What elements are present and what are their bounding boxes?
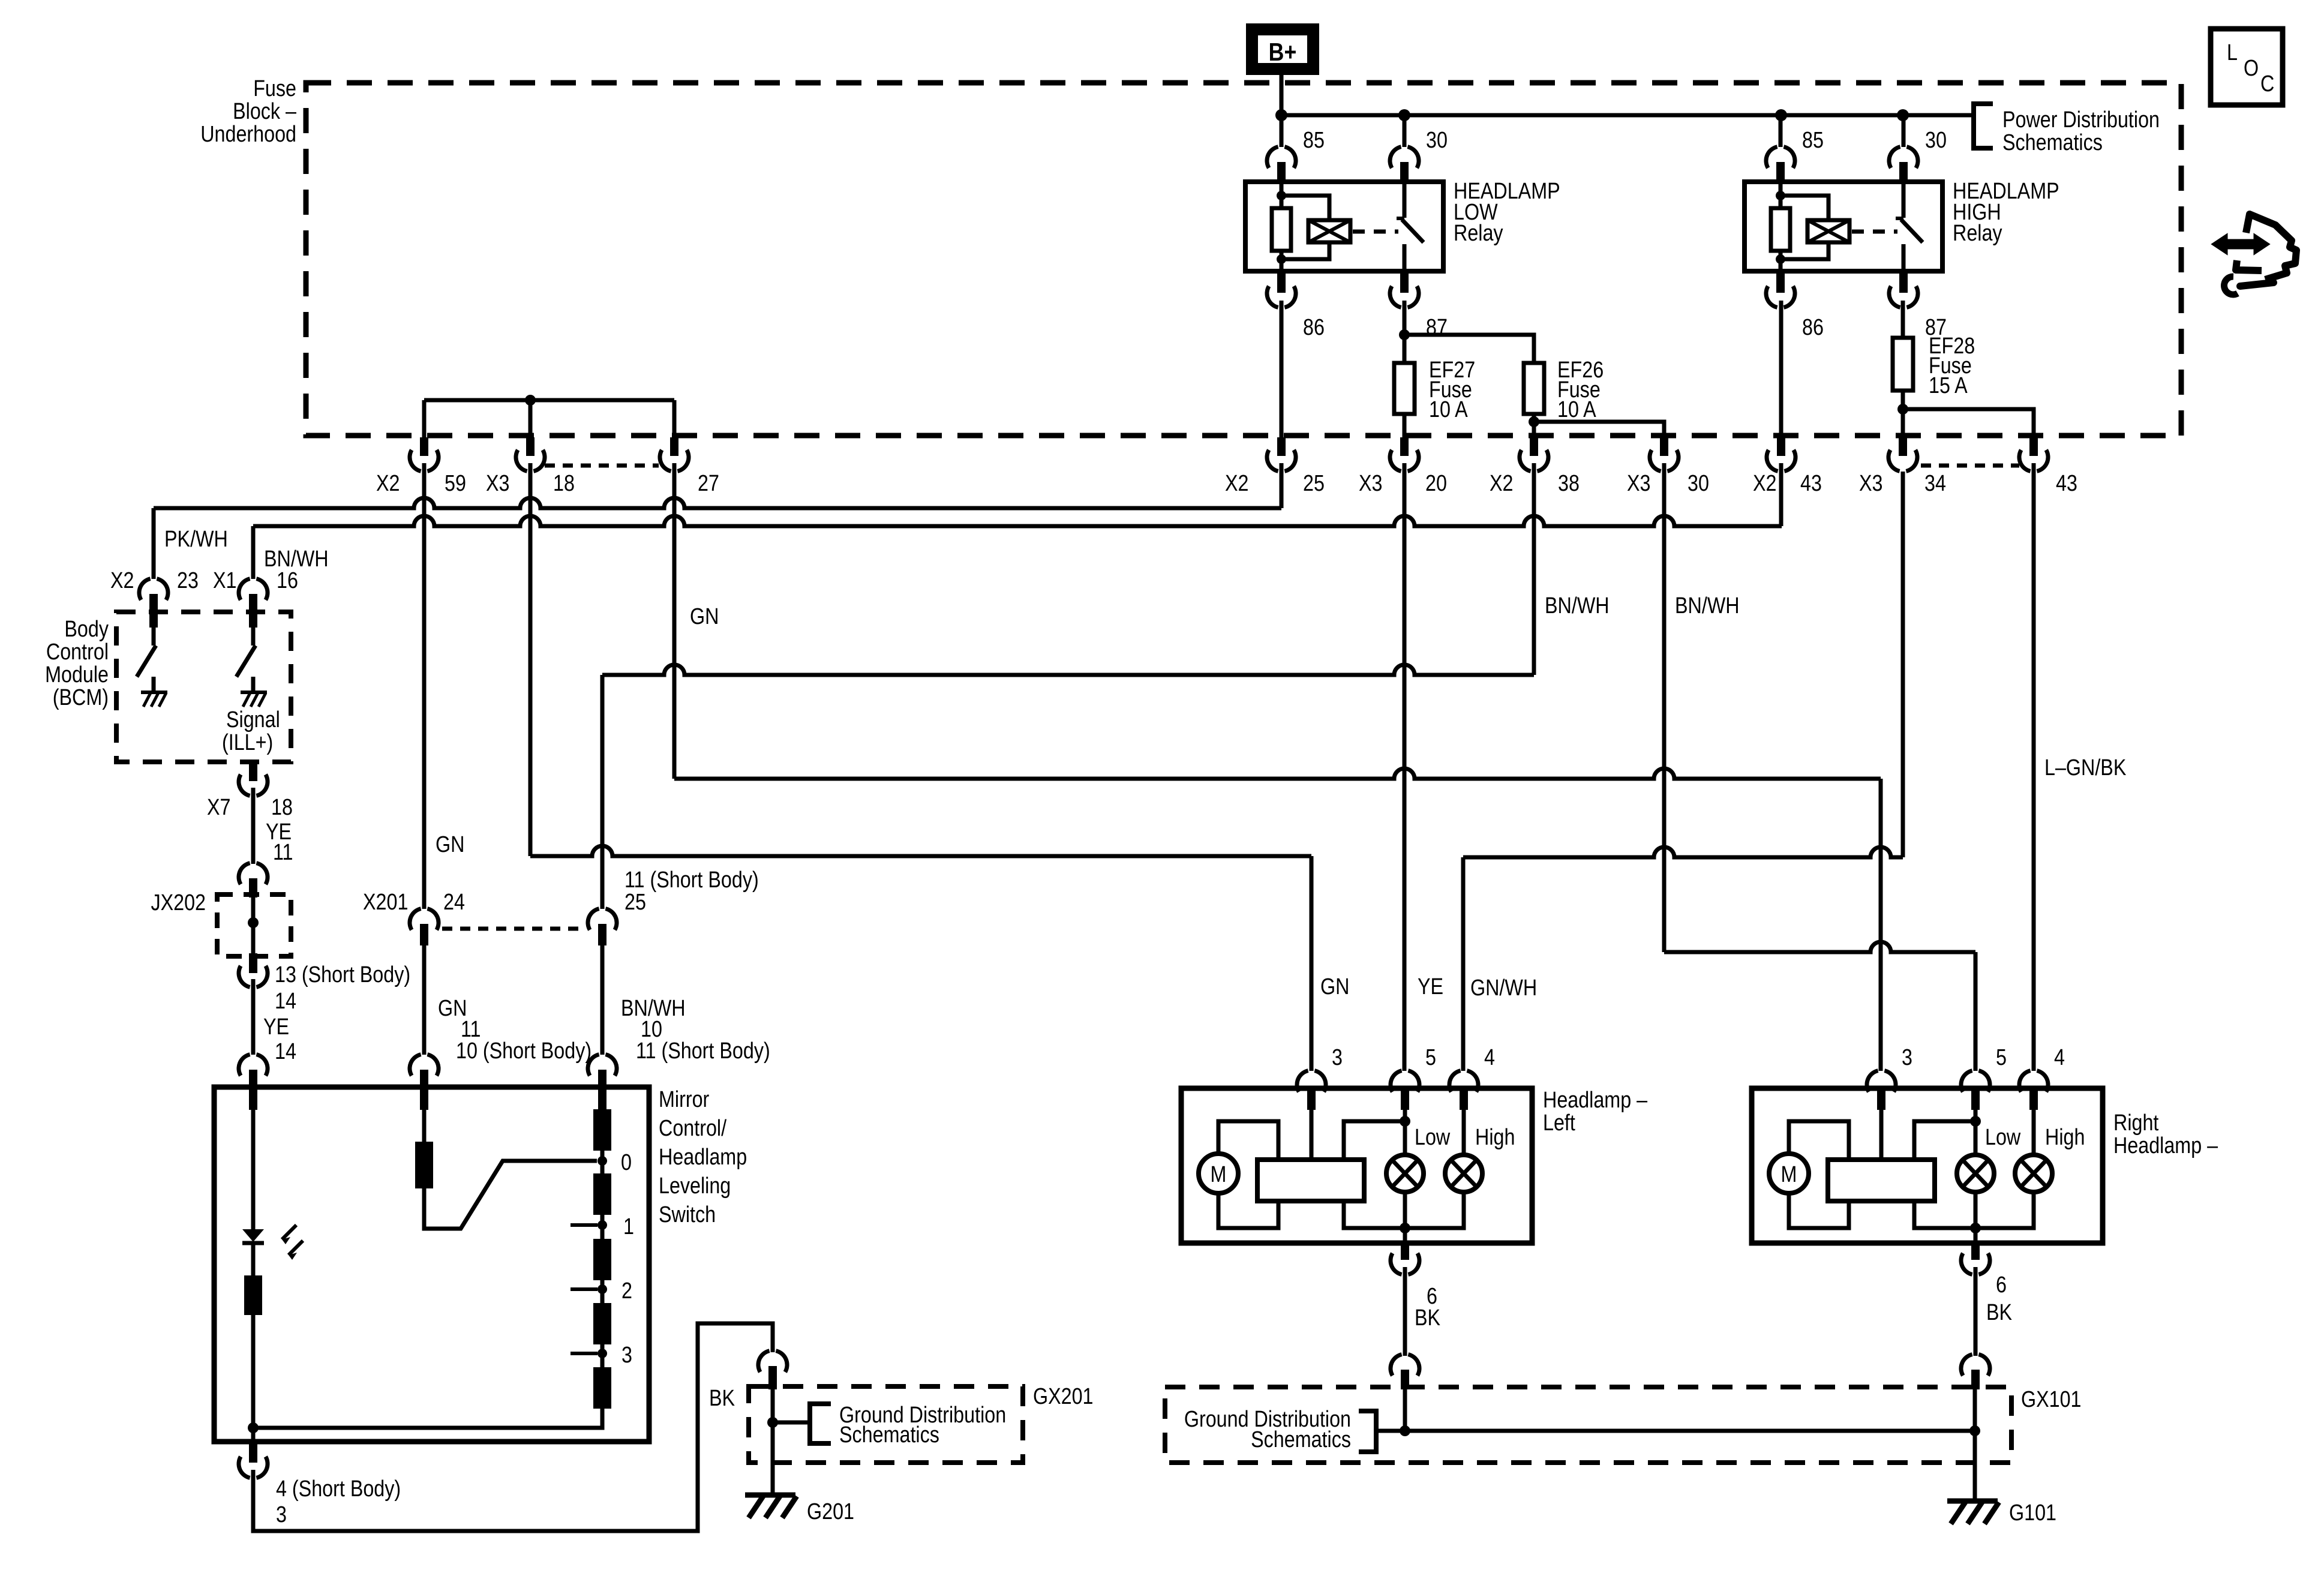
fuse EF26 [1524,363,1544,414]
wire relay-low 87 down [1403,301,1407,363]
connector arc X201-25 [588,909,599,930]
svg-text:10 A: 10 A [1429,397,1468,422]
pin 30 [1899,162,1908,182]
wire relay-high 87 down [1901,301,1905,338]
inline connector pin 27 [670,437,678,456]
svg-text:X3: X3 [1627,471,1650,496]
svg-text:15 A: 15 A [1929,373,1968,398]
svg-text:10 (Short Body): 10 (Short Body) [456,1038,591,1064]
connector arc pin 5 [1391,1071,1402,1092]
GX101 left wire [1403,1389,1407,1431]
connector cup below JX202 [239,966,250,987]
BCM internal switch x422 [251,628,256,646]
pin BK into GX201 [768,1366,777,1389]
connector cup below switch [239,1457,250,1478]
svg-text:59: 59 [445,471,466,496]
mirror control box [214,1087,649,1442]
pin 85 [1277,162,1286,182]
svg-text:34: 34 [1924,471,1946,496]
LED arrows [282,1225,296,1239]
svg-text:3: 3 [276,1502,287,1527]
coil side wire [1280,182,1284,271]
headlamp box [1752,1088,2103,1243]
junction dot below EF28 [1897,404,1908,415]
ground G201 [745,1493,795,1498]
power distribution bracket [1974,104,1993,148]
junction dot pin5 branch [1970,1116,1981,1127]
low beam lamp [1386,1155,1424,1192]
svg-text:X3: X3 [1359,471,1382,496]
pin3 wire to actuator [1879,1088,1884,1160]
svg-text:85: 85 [1303,128,1325,153]
coil side wire [1779,182,1783,271]
junction dot coil bottom [1776,254,1785,264]
junction dot coil top [1776,191,1785,200]
svg-text:Schematics: Schematics [839,1422,939,1448]
wire BN/WH line [253,516,1782,526]
wire left headlamp pin3 drop [1310,856,1314,1071]
svg-text:Control/: Control/ [659,1116,726,1141]
GX101 dashed box [1165,1387,2011,1463]
svg-text:86: 86 [1802,315,1824,340]
svg-text:Module: Module [45,662,109,688]
connector arc pin 4 [1449,1071,1461,1092]
wire EF27 to X3-20 [1403,414,1407,437]
wire GN into box [422,1110,427,1142]
motor loop top [1218,1121,1278,1160]
svg-text:18: 18 [553,471,575,496]
svg-text:11 (Short Body): 11 (Short Body) [636,1038,770,1064]
junction dot return [248,1422,259,1433]
svg-text:4: 4 [2054,1045,2065,1070]
svg-text:3: 3 [1902,1045,1912,1070]
BCM internal switch x256 [152,628,156,646]
coil-switch dashed link [1852,230,1897,234]
pin5 wire to low lamp [1403,1088,1407,1155]
svg-text:Relay: Relay [1953,221,2002,246]
svg-text:O: O [2244,56,2259,81]
connector arc GN at switch [410,1055,421,1076]
branch to actuator top [1914,1121,1975,1160]
pin3 wire to actuator [1310,1088,1314,1160]
svg-text:Schematics: Schematics [2002,130,2103,155]
svg-text:X3: X3 [486,471,509,496]
svg-text:BK: BK [709,1386,735,1411]
battery feed B+ box [1252,29,1313,69]
svg-text:43: 43 [1800,471,1822,496]
actuator rect [1257,1160,1364,1201]
X201 dashed link [442,927,584,931]
service/repair icon [2212,235,2269,254]
pin out of JX202 [249,953,257,973]
wire 38 drop [1532,463,1536,675]
junction dot coil top [1277,191,1286,200]
switch fixed wire top [1403,182,1407,218]
svg-text:27: 27 [698,471,719,496]
wire GN line to left headlamp [530,846,1311,856]
connector cup pin 87 [1390,286,1401,307]
wire X7 to JX202 [251,788,256,864]
svg-text:30: 30 [1688,471,1709,496]
branch to actuator top [1344,1121,1405,1160]
BCM pin X7-18 out [249,760,257,781]
junction dot bus pin30 high [1897,109,1909,121]
svg-text:Signal: Signal [226,707,280,733]
wire BK run [253,1323,773,1531]
leveling motor M [1199,1154,1238,1193]
pin 87 [1400,271,1409,293]
switch fixed wire top [1902,182,1906,218]
svg-text:25: 25 [1303,471,1325,496]
wire pin85 from bus [1779,115,1783,147]
svg-text:X3: X3 [1859,471,1882,496]
connector arc pin 30 [1390,147,1401,168]
pin YE into switch box [249,1070,257,1110]
connector cup pin 87 [1889,286,1900,307]
tap stubs [571,1223,597,1227]
svg-text:Low: Low [1415,1125,1451,1150]
wire EF26 branch to X2-38 and X3-30 [1534,422,1664,437]
headlamp box [1181,1088,1532,1243]
tap dots [597,1156,607,1166]
svg-text:Mirror: Mirror [659,1087,710,1112]
wire to G101 [1973,1463,1977,1501]
wire X2-25 drop to PK/WH line [1280,463,1284,508]
junction dot splice [525,395,536,406]
svg-text:30: 30 [1925,128,1947,153]
LED diode [242,1229,264,1242]
svg-text:Leveling: Leveling [659,1173,731,1199]
svg-text:M: M [1211,1162,1227,1187]
wire to pin6 [1403,1191,1407,1243]
wire relay-low 86 to X2-25 [1280,301,1284,437]
connector group dashed link 34-43 [1921,464,2019,468]
actuator rect [1828,1160,1935,1201]
wire PK/WH line [154,498,1281,508]
inline connector pin 20 [1400,437,1409,456]
svg-text:3: 3 [1332,1045,1343,1070]
wire branch to EF26 [1404,335,1534,363]
junction dot bus pin30 low [1398,109,1410,121]
inline connector pin 25 [1277,437,1286,456]
svg-text:Headlamp: Headlamp [659,1145,747,1170]
svg-text:20: 20 [1425,471,1447,496]
junction dot pin5 branch [1400,1116,1410,1127]
svg-text:11 (Short Body): 11 (Short Body) [624,867,759,893]
wire L-GN/BK drop [2032,463,2036,1071]
junction dot bottom [1970,1223,1981,1233]
wire GN upper [422,463,427,909]
switch ladder [593,1109,611,1151]
resistor in relay [1771,208,1790,251]
pin into JX202 [249,878,257,897]
connector group dashed link 18-27 [545,464,659,468]
svg-text:GN: GN [690,604,719,629]
ground G101 [1947,1499,1998,1504]
pin4 wire to high lamp [1462,1088,1466,1155]
coil branch wires [1780,196,1828,259]
junction dot EF branch [1399,329,1410,340]
connector cup X7 [239,775,250,795]
wire relay-high 86 to X2-43 [1779,301,1783,437]
JX202 dashed box [217,894,291,956]
LOC reference box [2211,29,2283,105]
wire YE to LED [251,1110,256,1229]
GX101 right wire [1973,1389,1977,1463]
relay coil box with X [1308,220,1350,242]
svg-text:86: 86 [1303,315,1325,340]
fuse block underhood dashed boundary box [306,83,2181,436]
svg-text:Headlamp –: Headlamp – [1543,1088,1647,1113]
low beam lamp [1957,1155,1994,1192]
GX101 rail [1405,1429,1975,1433]
bottom rail [1914,1191,2034,1228]
connector cup pin 86 [1267,286,1278,307]
svg-text:43: 43 [2056,471,2077,496]
svg-text:25: 25 [624,890,646,915]
pin BN/WH into switch box [598,1070,606,1110]
relay box [1744,182,1942,271]
svg-text:G201: G201 [807,1499,854,1524]
wire GN lower [422,945,427,1055]
wire YE to switch [251,979,256,1055]
BCM dashed box [116,612,291,762]
wire line A [602,665,1534,675]
switch tick [1896,217,1903,220]
svg-text:23: 23 [177,568,199,593]
fuse EF28 [1893,338,1913,391]
connector arc X201-24 [410,909,421,930]
wire BN/WH lower [600,945,605,1055]
svg-text:Schematics: Schematics [1251,1427,1351,1452]
svg-text:16: 16 [277,568,298,593]
leveling motor M [1769,1154,1809,1193]
pin X201-25 [598,924,606,945]
wire X2-43 drop to BN/WH line [1779,463,1783,526]
inline connector pin 34 [1899,437,1907,456]
svg-text:Relay: Relay [1454,221,1503,246]
pin 4 [2029,1086,2038,1110]
switch resistor bar [244,1275,262,1315]
pin 3 [1877,1086,1885,1110]
motor loop bottom [1789,1193,1849,1228]
bottom rail [1344,1191,1464,1228]
svg-text:(ILL+): (ILL+) [222,730,273,755]
svg-text:(BCM): (BCM) [53,685,109,710]
svg-text:High: High [1475,1125,1515,1150]
svg-text:X2: X2 [1225,471,1248,496]
svg-text:Fuse: Fuse [253,76,296,101]
wire right headlamp pin3 drop [1879,779,1883,1071]
pin 85 [1776,162,1785,182]
svg-text:Block –: Block – [233,99,296,124]
GX201 internal wire [771,1389,775,1463]
svg-text:38: 38 [1558,471,1580,496]
relay coil box with X [1807,220,1849,242]
svg-text:Low: Low [1985,1125,2021,1150]
svg-text:3: 3 [621,1343,632,1368]
connector arc pin 85 [1766,147,1777,168]
pin 86 [1776,271,1785,293]
svg-text:18: 18 [271,795,293,820]
svg-text:6: 6 [1996,1272,2007,1298]
wire 20 drop [1403,463,1407,1071]
right headlamp pin6/BK [1971,1243,1980,1260]
wire pin85 from bus [1280,115,1284,147]
wire line C2 [1463,847,1903,857]
svg-text:X7: X7 [207,795,230,820]
junction dot bottom [1400,1223,1410,1233]
motor loop bottom [1218,1193,1278,1228]
svg-text:BN/WH: BN/WH [1675,593,1740,619]
wire right headlamp pin5 drop [1974,952,1978,1071]
wire to pin6 [1974,1191,1978,1243]
pin 5 [1971,1086,1980,1110]
GX201 dashed box [749,1386,1023,1463]
svg-text:X2: X2 [376,471,400,496]
ladder return wire [253,1409,602,1428]
connector arc pin 5 [1961,1071,1972,1092]
BCM pin X1-16 [249,594,257,628]
connector arc pin 4 [2019,1071,2031,1092]
inline connector pin 18 [526,437,535,456]
inline connector pin 59 [420,437,428,456]
coil branch wires [1281,196,1329,259]
relay box [1245,182,1443,271]
GX201 bracket [810,1404,831,1443]
svg-text:YE: YE [1418,974,1443,999]
svg-text:C: C [2260,71,2274,97]
wire 34 drop [1901,472,1905,857]
junction dot B+ bus [1275,109,1287,121]
svg-text:BK: BK [1415,1305,1441,1331]
wire left headlamp pin4 drop [1461,857,1466,1071]
JX202 internal wire [251,897,256,953]
svg-text:BN/WH: BN/WH [1545,593,1610,619]
svg-text:YE: YE [263,1014,289,1040]
wire pin30 from bus [1902,115,1906,147]
left headlamp pin6/BK [1401,1243,1409,1260]
pin 5 [1401,1086,1409,1110]
pin 4 [1460,1086,1468,1110]
connector cup pin 86 [1766,286,1777,307]
GX101 bracket [1359,1411,1376,1452]
svg-text:GX101: GX101 [2021,1387,2082,1412]
BCM pin X2-23 [149,594,158,628]
wire pin30 from bus [1403,115,1407,147]
inline connector pin 43 [2029,437,2038,456]
svg-text:GN: GN [1320,974,1349,999]
wiper blade [424,1161,597,1229]
wire EF28 down [1901,391,1905,437]
connector arc pin 3 [1867,1071,1878,1092]
svg-text:2: 2 [621,1278,632,1304]
svg-text:JX202: JX202 [151,890,206,915]
svg-text:5: 5 [1425,1045,1436,1070]
svg-text:1: 1 [623,1214,634,1239]
splice verticals [422,400,427,437]
connector arc pin 85 [1267,147,1278,168]
coil-switch dashed link [1353,230,1398,234]
switch wire bottom [1403,244,1407,271]
wire PK/WH left drop [152,508,156,579]
svg-text:Left: Left [1543,1110,1575,1136]
main battery bus wire [1281,113,1974,118]
B+ vertical wire [1280,72,1284,146]
pin4 wire to high lamp [2032,1088,2036,1155]
junction dot coil bottom [1277,254,1286,264]
svg-text:Right: Right [2113,1110,2159,1136]
wire resistor down [251,1315,256,1442]
connector arc YE at switch [239,1055,250,1076]
svg-text:B+: B+ [1269,38,1297,66]
resistor in relay [1272,208,1291,251]
connector arc above JX202 [239,863,250,884]
svg-text:GX201: GX201 [1033,1384,1094,1409]
wire to G201 [771,1463,775,1495]
svg-text:0: 0 [621,1150,632,1175]
svg-text:High: High [2045,1125,2085,1150]
svg-text:X2: X2 [110,568,134,593]
svg-text:14: 14 [275,1039,296,1064]
high beam lamp [1445,1155,1482,1192]
wire EF28 branch to 43 [1903,409,2034,437]
connector arc pin 3 [1297,1071,1308,1092]
wire line B [674,769,1881,779]
svg-text:GN: GN [436,832,464,857]
connector arc pin 30 [1889,147,1900,168]
pin5 wire to low lamp [1974,1088,1978,1155]
junction dot below EF26 [1529,416,1539,427]
svg-text:30: 30 [1426,128,1448,153]
svg-text:85: 85 [1802,128,1824,153]
switch wire bottom [1902,244,1906,271]
pin 87 [1899,271,1908,293]
switch tick [1397,217,1404,220]
svg-text:L: L [2227,40,2238,65]
connector arc BK G201 [758,1351,770,1372]
svg-text:14: 14 [275,989,296,1014]
svg-text:G101: G101 [2009,1500,2056,1526]
junction dot bus pin85 high [1775,109,1787,121]
wire BN/WH left drop [251,526,256,579]
svg-text:Body: Body [64,617,109,642]
wiper contact bar [415,1142,433,1188]
pin out of switch box [249,1442,257,1463]
svg-text:PK/WH: PK/WH [164,527,228,552]
svg-text:X201: X201 [363,890,408,915]
fuse block splice bus [424,398,674,403]
pin X201-24 [420,924,428,945]
svg-text:BK: BK [1986,1300,2013,1325]
svg-text:Switch: Switch [659,1202,716,1227]
inline connector pin 43 [1777,437,1785,456]
svg-text:13 (Short Body): 13 (Short Body) [275,962,410,987]
wire LED to resistor [251,1244,256,1275]
svg-text:Control: Control [46,640,109,665]
fuse EF27 [1394,363,1415,414]
svg-text:Headlamp –: Headlamp – [2113,1133,2218,1158]
svg-text:4 (Short Body): 4 (Short Body) [276,1476,401,1502]
inline connector pin 30 [1660,437,1668,456]
BCM connector arc X1-16 [239,579,250,600]
svg-text:Underhood: Underhood [200,122,296,147]
motor loop top [1789,1121,1849,1160]
wire EF26 down [1532,414,1536,422]
inline connector pin 38 [1530,437,1538,456]
high beam lamp [2015,1155,2052,1192]
switch blade [1901,220,1923,242]
